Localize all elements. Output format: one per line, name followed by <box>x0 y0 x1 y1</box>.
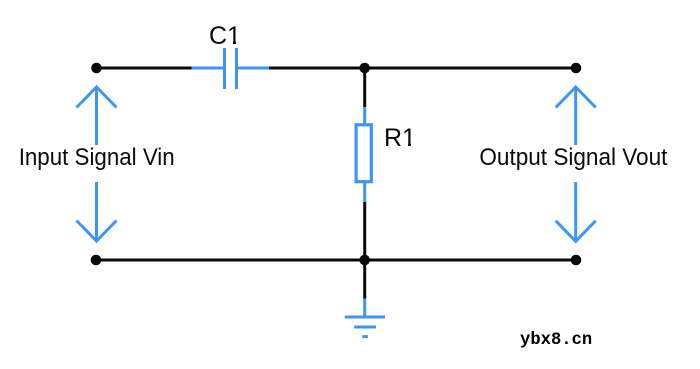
svg-text:Output Signal Vout: Output Signal Vout <box>479 144 667 171</box>
svg-text:C1: C1 <box>209 22 241 50</box>
wire R1 bottom lead to bottom junction <box>363 202 366 260</box>
svg-text:Input Signal Vin: Input Signal Vin <box>19 144 175 171</box>
node top junction <box>359 63 370 74</box>
wire top junction to Vout top node <box>365 67 576 70</box>
svg-text:R1: R1 <box>384 124 416 152</box>
capacitor C1 <box>192 48 270 89</box>
wire C1 right lead to top junction <box>269 67 365 70</box>
wire top junction down to R1 <box>363 68 366 107</box>
wire bottom rail (Vin- to Vout-) <box>96 259 576 262</box>
node top-left (Vin+) <box>91 63 102 74</box>
node top-right (Vout+) <box>571 63 582 74</box>
resistor R1 <box>356 107 371 202</box>
arrow Vin (input signal indicator) <box>77 87 117 241</box>
node bottom-right (Vout-) <box>571 255 582 266</box>
wire bottom junction to ground <box>363 260 366 299</box>
node bottom junction <box>359 255 370 266</box>
ground <box>345 299 385 337</box>
svg-text:ybx8.cn: ybx8.cn <box>520 331 592 350</box>
arrow Vout (output signal indicator) <box>556 87 596 241</box>
node bottom-left (Vin-) <box>91 255 102 266</box>
wire top-left segment (Vin top node to C1 left lead) <box>97 67 192 70</box>
